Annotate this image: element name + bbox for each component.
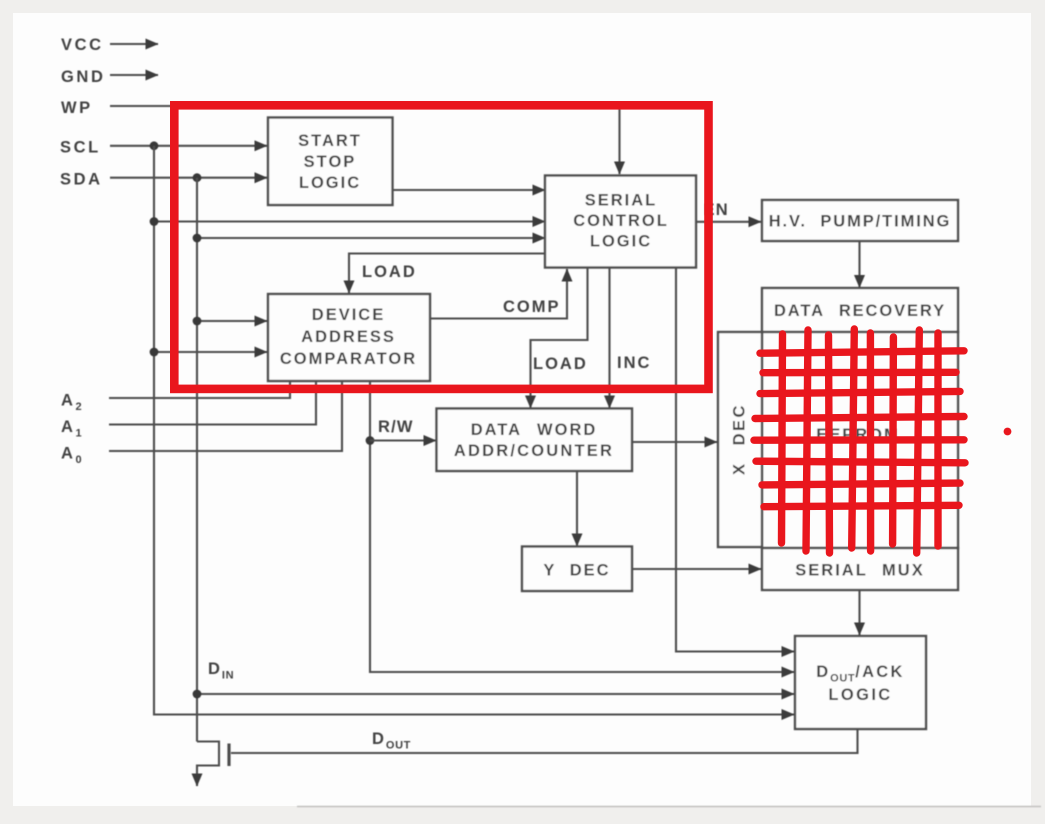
node SDA junction	[193, 173, 202, 182]
svg-text:ADDR/COUNTER: ADDR/COUNTER	[454, 442, 614, 460]
block U2 SERIAL CONTROL LOGIC	[545, 176, 696, 268]
node R/W junction	[366, 436, 375, 445]
block U11 DOUT/ACK LOGIC	[795, 636, 926, 729]
red annotation scribble grid over EEPROM	[754, 329, 965, 553]
block U4 DATA WORD ADDR/COUNTER	[437, 409, 633, 472]
svg-text:STOP: STOP	[304, 153, 357, 171]
block U9 X DEC	[718, 332, 762, 547]
wire R/W rail from comparator down and right to dout/ack input 2	[370, 381, 794, 672]
wire SCL rail down and right to dout/ack input 4	[154, 146, 794, 715]
wire EN from serial control logic to h.v. pump	[697, 221, 761, 223]
wire VCC pin arrow	[110, 43, 158, 45]
svg-text:COMPARATOR: COMPARATOR	[280, 350, 417, 368]
svg-text:DEVICE: DEVICE	[312, 306, 385, 324]
svg-text:SCL: SCL	[60, 139, 101, 157]
svg-text:GND: GND	[61, 68, 105, 86]
red annotation dot	[1004, 428, 1012, 436]
wire SDA rail to comparator input 1	[197, 320, 267, 322]
svg-text:LOGIC: LOGIC	[590, 233, 652, 251]
wire A1 to comparator	[109, 381, 316, 425]
wire SDA rail to serial control logic input 3	[197, 237, 545, 239]
svg-text:DATA RECOVERY: DATA RECOVERY	[774, 302, 946, 320]
wire GND pin arrow	[110, 74, 158, 76]
svg-text:DATA WORD: DATA WORD	[471, 421, 598, 439]
svg-text:LOAD: LOAD	[533, 355, 588, 373]
block U8 EEPROM array	[762, 332, 958, 548]
wire serial control logic down to dout/ack input 1	[676, 268, 794, 652]
svg-text:ADDRESS: ADDRESS	[301, 328, 396, 346]
wire R/W into data word addr/counter	[370, 439, 436, 441]
svg-text:INC: INC	[617, 354, 651, 372]
wire SCL into start stop logic	[110, 145, 267, 147]
svg-text:H.V. PUMP/TIMING: H.V. PUMP/TIMING	[769, 213, 952, 231]
wire SDA rail down to output transistor	[196, 178, 198, 742]
svg-text:COMP: COMP	[503, 298, 561, 316]
svg-text:LOAD: LOAD	[362, 263, 417, 281]
svg-text:SERIAL MUX: SERIAL MUX	[795, 562, 924, 580]
wire y dec to serial mux	[632, 568, 761, 570]
node junction SDA rail / comparator input	[193, 317, 202, 326]
svg-text:SDA: SDA	[60, 171, 103, 189]
svg-text:X DEC: X DEC	[731, 403, 749, 475]
wire WP to serial control logic top	[110, 106, 620, 174]
wire SDA into start stop logic	[110, 177, 267, 179]
svg-text:VCC: VCC	[61, 36, 104, 54]
node SCL junction	[150, 141, 159, 150]
wire DOUT from dout/ack logic to output transistor gate	[231, 729, 858, 753]
svg-text:WP: WP	[61, 99, 93, 117]
svg-text:START: START	[298, 132, 362, 150]
wire A2 to comparator	[109, 381, 290, 398]
block U3 DEVICE ADDRESS COMPARATOR	[268, 294, 430, 381]
wire data word addr/counter to x dec	[632, 441, 717, 443]
wire LOAD from serial control logic to data word addr/counter	[531, 268, 588, 408]
wire data word addr/counter down to y dec	[576, 471, 578, 546]
svg-text:CONTROL: CONTROL	[573, 212, 669, 230]
wire LOAD from serial control logic to device address comparator	[349, 254, 545, 294]
node junction SDA rail / input 3	[193, 234, 202, 243]
wire serial mux down to dout/ack logic	[858, 590, 860, 635]
node DIN junction	[193, 690, 202, 699]
block U6 H.V. PUMP/TIMING	[762, 200, 958, 241]
svg-text:SERIAL: SERIAL	[585, 192, 658, 210]
transistor Q1 output driver channel	[197, 742, 219, 787]
node junction SCL rail / comparator input	[150, 348, 159, 357]
block U1 START STOP LOGIC	[268, 118, 393, 206]
block U7 DATA RECOVERY	[762, 288, 958, 332]
transistor Q1 gate bar	[227, 744, 230, 767]
wire SCL rail to serial control logic input 2	[154, 220, 545, 222]
svg-text:LOGIC: LOGIC	[828, 686, 892, 704]
wire A0 to comparator	[109, 381, 342, 451]
svg-text:R/W: R/W	[378, 418, 414, 436]
red annotation rectangle highlight	[174, 105, 708, 389]
wire start stop logic to serial control logic	[392, 189, 545, 191]
scan artifact baseline	[297, 806, 1041, 808]
block U10 SERIAL MUX	[762, 548, 958, 590]
node junction SCL rail / input 2	[150, 217, 159, 226]
wire COMP from comparator up into serial control logic	[430, 269, 567, 319]
wire SCL rail to comparator input 2	[154, 351, 267, 353]
svg-text:Y DEC: Y DEC	[543, 562, 610, 580]
wire INC from serial control logic to data word addr/counter	[608, 268, 610, 408]
wire h.v. pump down to data recovery	[858, 241, 860, 288]
svg-text:LOGIC: LOGIC	[299, 174, 361, 192]
block U5 Y DEC	[522, 547, 632, 592]
wire DIN to dout/ack input 3	[197, 693, 794, 695]
